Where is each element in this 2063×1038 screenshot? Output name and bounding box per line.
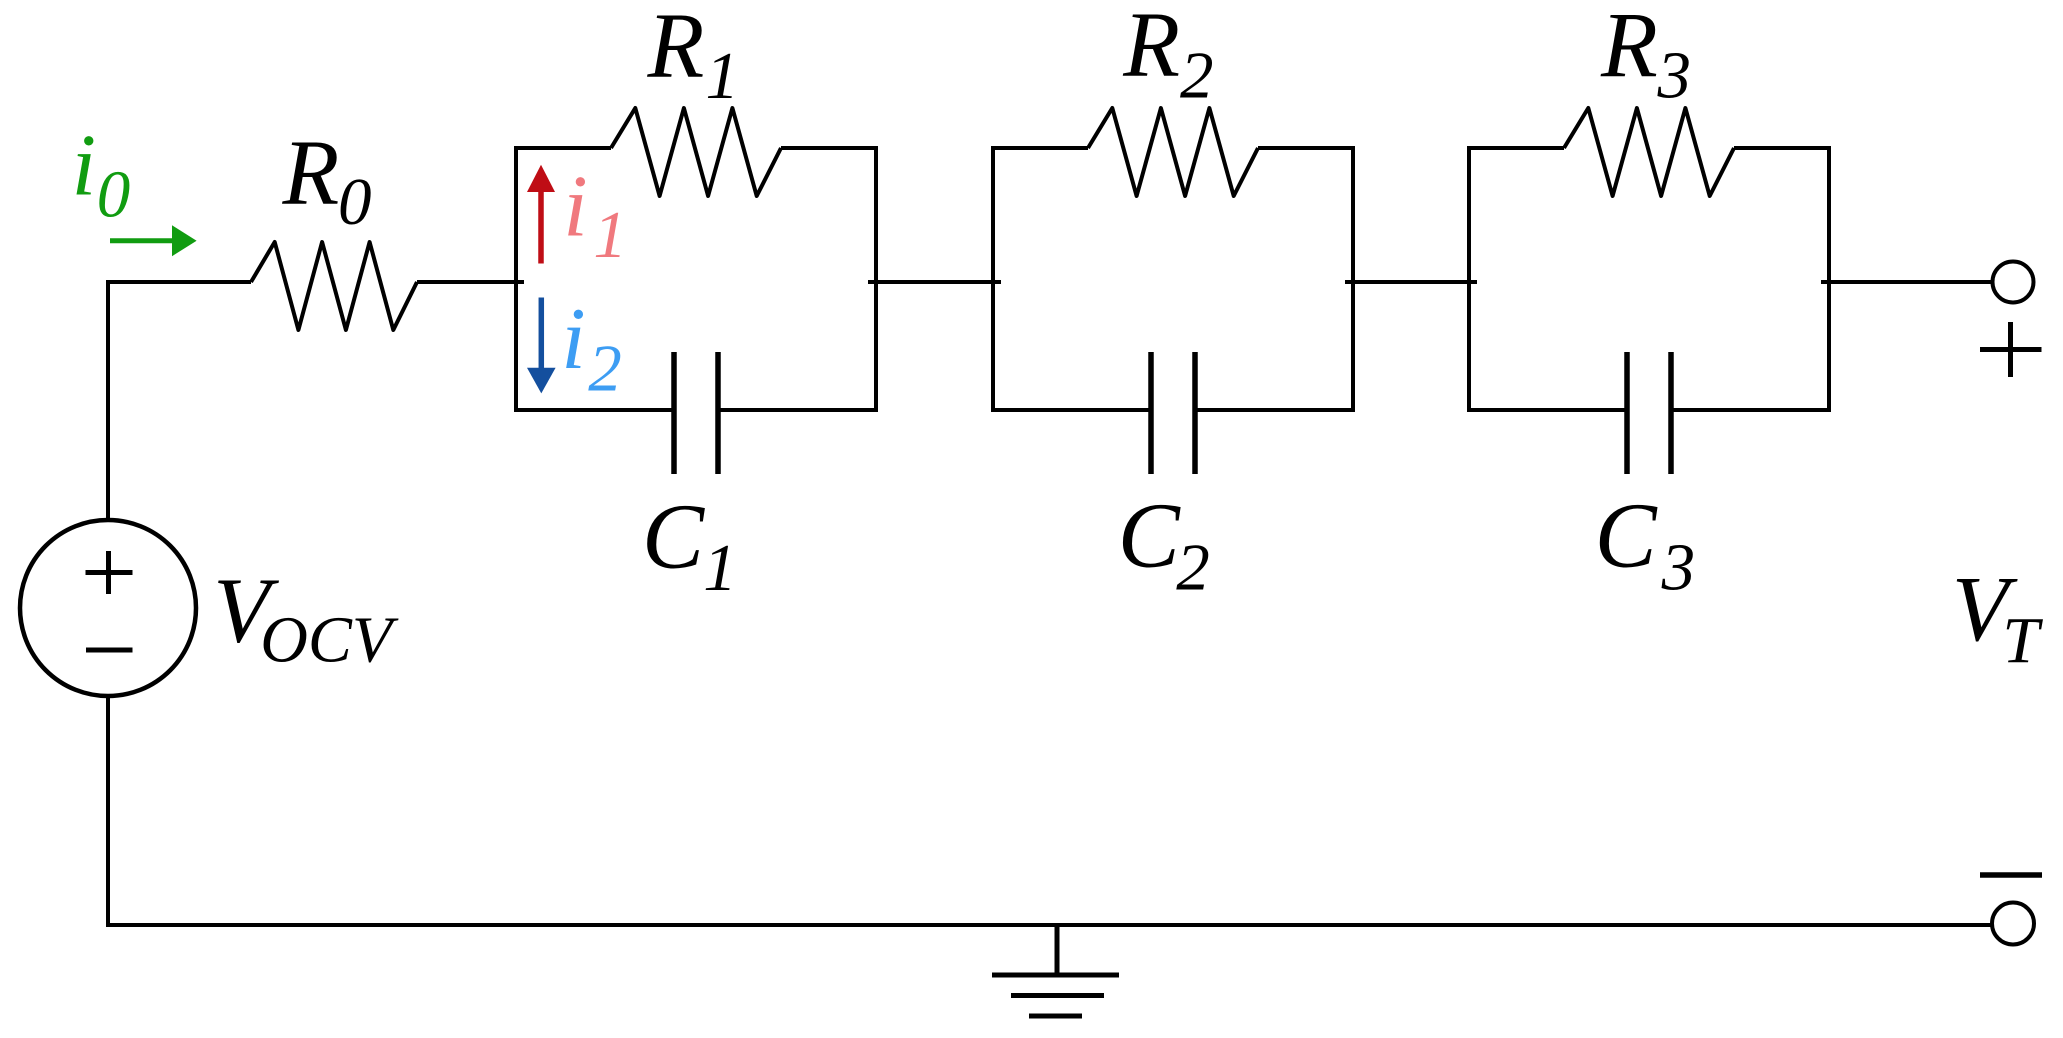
svg-text:i: i bbox=[72, 118, 96, 215]
svg-text:OCV: OCV bbox=[260, 603, 399, 676]
svg-text:0: 0 bbox=[338, 165, 372, 239]
svg-text:2: 2 bbox=[588, 332, 622, 406]
svg-text:1: 1 bbox=[593, 198, 627, 272]
svg-text:R: R bbox=[1122, 0, 1180, 97]
svg-text:R: R bbox=[1600, 0, 1658, 98]
svg-text:R: R bbox=[282, 122, 340, 225]
svg-text:T: T bbox=[2002, 604, 2043, 677]
svg-text:C: C bbox=[1595, 484, 1658, 587]
svg-text:1: 1 bbox=[706, 39, 740, 113]
svg-text:i: i bbox=[561, 291, 585, 388]
svg-text:0: 0 bbox=[97, 158, 131, 232]
svg-text:C: C bbox=[1118, 484, 1181, 587]
svg-text:C: C bbox=[642, 485, 705, 588]
svg-text:R: R bbox=[647, 0, 705, 98]
svg-text:1: 1 bbox=[703, 531, 737, 605]
svg-text:i: i bbox=[563, 159, 587, 256]
svg-text:3: 3 bbox=[1657, 39, 1692, 113]
svg-text:2: 2 bbox=[1180, 38, 1214, 112]
svg-text:2: 2 bbox=[1176, 531, 1210, 605]
svg-text:3: 3 bbox=[1661, 531, 1696, 605]
